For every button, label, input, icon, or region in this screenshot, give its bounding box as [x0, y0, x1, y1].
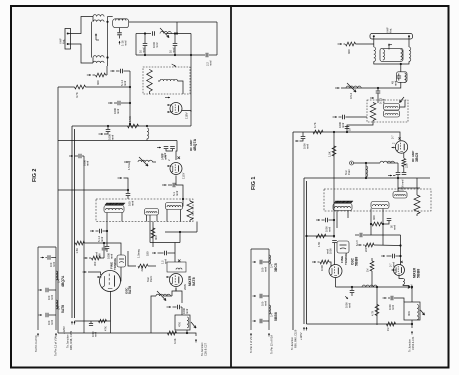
wire to IF output: [186, 330, 188, 333]
heater chart right rails: [250, 249, 252, 330]
bottom row right: [307, 323, 413, 325]
mixer grid row: [150, 242, 180, 244]
fine tuning right: [337, 241, 349, 253]
osc trimmer tall zigzag right: [414, 195, 420, 214]
svg-text:100K: 100K: [320, 265, 324, 271]
capacitor C21 45 mmf: [397, 76, 402, 78]
capacitor C25 with arrow: [302, 132, 304, 136]
svg-text:mmf: mmf: [392, 225, 396, 230]
heater chart rail right: [55, 247, 57, 330]
svg-text:4.7K: 4.7K: [313, 122, 317, 128]
wire antenna to balun: [68, 17, 93, 34]
rail resistor 1.5K: [332, 146, 336, 156]
IF out row y287: [336, 286, 413, 288]
svg-text:mmf: mmf: [50, 295, 54, 300]
tuner enclosure right panel: [292, 132, 294, 330]
svg-text:mmf: mmf: [116, 109, 120, 114]
antenna gang coil L6 with core: [105, 203, 125, 205]
wire L1 to top feedback line: [129, 21, 217, 23]
B+ rail arrows: [71, 321, 73, 325]
svg-text:TUNING: TUNING: [344, 253, 348, 265]
wire balun top to L1: [108, 16, 113, 18]
svg-text:30K: 30K: [407, 311, 411, 316]
cascode tube V1b: [170, 163, 182, 175]
svg-text:+125V: +125V: [299, 332, 303, 340]
svg-text:To Junction: To Junction: [200, 342, 204, 356]
heater cap Ch1: [48, 255, 50, 260]
wire mixer plate down: [172, 288, 176, 297]
capacitor C18 1000mmf bottom: [90, 321, 92, 323]
svg-text:C26 & C27: C26 & C27: [204, 342, 208, 356]
resistor R27 4.7K: [375, 305, 379, 316]
svg-text:300: 300: [154, 235, 158, 240]
capacitor C2 1000 mmf: [153, 31, 155, 36]
capacitor C11 100 mmf: [127, 190, 129, 193]
capacitor C3 10 mmf: [144, 34, 146, 44]
heater cap Ch3: [46, 313, 48, 318]
heater chart top: [38, 246, 56, 248]
wire mixer output: [176, 288, 182, 304]
arrow left of V1b: [118, 177, 123, 179]
svg-text:mmf: mmf: [208, 60, 212, 66]
bottom supply row left: [75, 320, 111, 322]
panel divider: [230, 6, 232, 368]
wire strip down to balun: [373, 36, 375, 47]
resistor R10 47K: [99, 319, 107, 322]
heater chart bottom arrows: [37, 333, 39, 337]
plate supply row y132: [293, 131, 387, 133]
osc tube V2a 5AT8 triode: [100, 271, 121, 292]
svg-text:mmf: mmf: [326, 249, 330, 254]
coil L21 in shield box: [397, 72, 408, 83]
svg-text:mmf: mmf: [305, 144, 309, 149]
fine tuning assembly: [117, 255, 126, 267]
resistor R20 with arrow: [338, 43, 343, 45]
wire V1a plate to B line: [182, 111, 191, 127]
rail arrows right: [303, 327, 305, 331]
mixer tube V22b: [394, 265, 405, 276]
capacitor C31 5-1.2 with arrow top: [110, 70, 114, 72]
bottom wire row: [58, 332, 187, 334]
resistor R8 on bottom: [168, 331, 177, 335]
resistor R11 4.7K on left wall row: [75, 85, 86, 89]
svg-text:C154 & L51: C154 & L51: [411, 336, 415, 350]
coil L26 box: [393, 192, 407, 199]
box connections: [377, 100, 379, 103]
mixer grid line down: [400, 235, 402, 265]
resistor R24 300: [372, 222, 382, 226]
svg-text:R99, R48, C159: R99, R48, C159: [69, 330, 73, 350]
wire osc top row: [165, 231, 197, 233]
svg-text:3,4: 3,4: [270, 264, 274, 268]
AGC row right y178: [304, 177, 430, 179]
arrow into V2a grid: [83, 271, 87, 273]
resistor R26 1M: [370, 261, 374, 271]
svg-text:mmf: mmf: [52, 262, 56, 267]
svg-text:mmf: mmf: [123, 40, 127, 46]
svg-text:mmf: mmf: [185, 309, 189, 314]
wire L21 to RF row: [341, 82, 401, 88]
resistor R23 220: [403, 153, 405, 158]
balun T2 right coil: [409, 47, 411, 61]
svg-text:mmf: mmf: [155, 42, 159, 48]
mixer tube V2b 5AT8: [170, 274, 183, 287]
resistor R25 with arrow: [358, 244, 362, 246]
svg-text:To Pin 12 of V1A: To Pin 12 of V1A: [270, 335, 274, 354]
capacitor C23 with arrow: [333, 116, 338, 118]
V2a arrows: [97, 276, 102, 278]
svg-text:mmf: mmf: [393, 81, 397, 86]
capacitor C16 with arrow: [167, 306, 172, 308]
gang dashed box right: [324, 189, 431, 211]
coil L1 with shield box: [113, 19, 129, 28]
coil L3 in shield: [160, 79, 178, 81]
cascode RF amp tube V1a: [170, 103, 182, 115]
osc section wires: [371, 224, 401, 235]
svg-text:5AT8: 5AT8: [192, 277, 196, 286]
wire osc cathode down: [109, 292, 112, 334]
osc tube V22a: [329, 265, 342, 278]
capacitor C7 top left: [118, 101, 120, 106]
svg-text:4.7K: 4.7K: [75, 92, 79, 98]
balun T1 bottom coils: [93, 56, 104, 58]
V1a pin arrows: [167, 104, 172, 106]
svg-text:mmf: mmf: [347, 303, 351, 308]
wire plate line down: [190, 34, 192, 113]
tuner enclosure left wall: [57, 87, 59, 333]
balun transformer T1 top coils: [93, 15, 104, 17]
coil L25 choke down: [365, 162, 367, 164]
capacitor C10 5-1 mmf with arrow: [162, 184, 167, 186]
balun T2 center box with coils: [380, 48, 403, 61]
wire balun bottom junction: [107, 63, 109, 66]
svg-text:1.5K: 1.5K: [75, 248, 79, 254]
svg-text:4BQ7A: 4BQ7A: [61, 275, 65, 287]
balun phase arrow: [95, 35, 97, 41]
svg-text:1.5meg: 1.5meg: [137, 249, 141, 258]
svg-text:mmf: mmf: [391, 305, 395, 310]
svg-text:1.5K: 1.5K: [317, 241, 321, 247]
svg-text:5AT8: 5AT8: [61, 305, 65, 313]
interstage dashed shield box: [143, 67, 190, 94]
resistor R21 tall in box: [370, 103, 376, 121]
svg-text:To Pin 12 of V14: To Pin 12 of V14: [54, 336, 58, 356]
B+ rail double line: [71, 126, 73, 318]
heater cap right 2: [260, 294, 262, 299]
wire from cathode row down: [135, 34, 137, 56]
heater cap right 1: [260, 260, 262, 265]
wire osc cathode to row: [335, 278, 337, 288]
V22b arrows: [392, 269, 397, 271]
svg-text:R99, R48, C159: R99, R48, C159: [294, 329, 298, 348]
resistor R9 1.5K plate: [76, 241, 85, 245]
wire cathode row: [136, 54, 205, 56]
mixer plate peaking coil: [399, 276, 403, 279]
svg-text:5BB8: 5BB8: [355, 257, 359, 266]
svg-text:mmf: mmf: [327, 227, 331, 232]
balun bottom wires: [374, 61, 409, 64]
svg-text:300: 300: [96, 80, 100, 85]
capacitor C24 on drop: [345, 127, 350, 129]
RF interstage dashed box right: [367, 100, 408, 122]
balun T2 left coil: [374, 47, 376, 61]
svg-text:mmf: mmf: [171, 47, 175, 53]
wire shield connections: [149, 92, 151, 95]
svg-text:mmf: mmf: [50, 320, 54, 325]
capacitor C6 on screen row: [107, 126, 109, 129]
plate coil L24: [354, 162, 381, 164]
capacitor C17: [102, 248, 107, 250]
svg-text:To Junction: To Junction: [290, 337, 294, 350]
vertical x130 joining rows: [129, 71, 131, 124]
grid coupling box: [167, 262, 186, 272]
svg-text:mmf: mmf: [110, 135, 114, 140]
svg-text:+125V: +125V: [62, 326, 66, 334]
svg-text:5BB8: 5BB8: [417, 269, 421, 278]
antenna gang coil L27 with core: [334, 201, 353, 203]
wire IF out bottom: [411, 320, 413, 328]
svg-text:mmf: mmf: [85, 161, 89, 166]
capacitor C12 5-1.2 with arrow: [90, 230, 94, 232]
svg-text:FIG 2: FIG 2: [32, 169, 38, 182]
gang wires down: [106, 213, 108, 245]
svg-text:47K: 47K: [178, 322, 182, 327]
svg-text:mmf: mmf: [123, 81, 127, 86]
capacitor C32 with arrow y220: [316, 219, 320, 221]
V2b pin arrows: [166, 276, 171, 278]
svg-text:Ant.: Ant.: [388, 28, 392, 33]
svg-text:Point: Point: [347, 169, 351, 175]
capacitor C28 1000mmf rail: [332, 241, 337, 243]
heater cap Ch2: [46, 288, 48, 293]
wire box bottom to grid line: [347, 121, 373, 133]
wire AGC row y190: [58, 189, 128, 191]
variable coil L2: [160, 32, 171, 34]
svg-text:mmf: mmf: [341, 123, 345, 128]
wire fine tuning to plate: [120, 267, 121, 281]
osc plate feed row y236: [307, 235, 335, 237]
osc feedback coil L9: [156, 294, 170, 296]
svg-text:To Pin 3 of V3: To Pin 3 of V3: [34, 335, 38, 352]
feedback line right drop: [216, 22, 218, 55]
svg-text:To Junction: To Junction: [66, 334, 70, 348]
osc grid vertical line: [83, 156, 85, 333]
svg-text:4BQ7A: 4BQ7A: [193, 139, 197, 151]
test point right: [350, 161, 354, 165]
oscillator trimmer R4 tall zigzag: [187, 201, 193, 220]
resistor R7 220K: [138, 264, 148, 268]
capacitor C5 2.2 mmf: [206, 53, 208, 58]
svg-text:Point: Point: [149, 276, 153, 282]
svg-text:5BB8: 5BB8: [274, 312, 278, 321]
svg-text:mmf: mmf: [175, 191, 179, 196]
RF gang coil L28: [371, 202, 389, 209]
svg-text:220K: 220K: [140, 265, 144, 271]
B+ rails right panel: [303, 178, 305, 324]
osc transformer box: [175, 315, 190, 330]
svg-text:220: 220: [405, 163, 409, 168]
cathode caps pair: [397, 163, 399, 172]
resistor R12 300 with arrow: [87, 74, 91, 76]
svg-text:mmf: mmf: [141, 47, 145, 53]
svg-text:1M: 1M: [366, 268, 370, 272]
svg-text:5AT8: 5AT8: [128, 286, 132, 294]
svg-text:4.7K: 4.7K: [371, 310, 375, 316]
capacitor C4 10 mmf: [174, 34, 176, 44]
svg-text:mmf: mmf: [381, 99, 385, 104]
capacitor C1 1-16 mmf: [119, 28, 121, 33]
wire C2 left: [136, 33, 151, 35]
svg-text:FIG 1: FIG 1: [251, 177, 257, 190]
resistor R13 300 with arrow: [84, 257, 88, 259]
svg-text:mmf: mmf: [163, 155, 167, 160]
VHF antenna terminal strip right: [370, 34, 413, 40]
capacitor C27 5-1.5: [360, 233, 362, 238]
IF output row: [398, 178, 420, 188]
mixer coupling cap 2-7: [381, 255, 385, 257]
heater chart bottom arrows right: [250, 333, 252, 337]
svg-text:11SY: 11SY: [182, 172, 186, 179]
svg-text:300: 300: [93, 261, 97, 266]
V1b arrows: [167, 165, 172, 167]
svg-text:mmf: mmf: [100, 237, 104, 242]
svg-text:3BC5: 3BC5: [415, 153, 419, 162]
resistor R5 300: [151, 228, 155, 238]
wire drop to RF grid row: [176, 22, 178, 34]
wire balun junction down to R12: [106, 66, 108, 75]
svg-text:3BC5: 3BC5: [274, 263, 278, 272]
arrow into cascode cathode: [165, 97, 170, 99]
capacitor C29 1000mmf: [351, 287, 353, 290]
capacitor C8 100 mmf: [69, 155, 73, 157]
resistor R28 1M: [387, 322, 396, 326]
coil L23 double in box: [384, 104, 400, 111]
svg-text:TUNING: TUNING: [113, 258, 117, 270]
peaking coil L29: [362, 285, 377, 287]
svg-text:mmf: mmf: [263, 267, 267, 272]
svg-text:To Junction: To Junction: [408, 339, 412, 352]
resistor R2 1.5K: [128, 124, 139, 128]
svg-text:200V: 200V: [183, 284, 187, 290]
balun phase arrow right: [388, 45, 390, 50]
svg-text:220: 220: [364, 247, 368, 252]
svg-text:47K: 47K: [104, 326, 108, 331]
IF transformer box: [404, 302, 420, 320]
svg-text:300: 300: [372, 215, 376, 220]
V21 arrows: [392, 147, 397, 149]
svg-text:mmf: mmf: [130, 201, 134, 206]
balun center frame: [91, 22, 93, 58]
osc gang coil L8: [166, 203, 183, 210]
heater chart rail left: [37, 247, 39, 330]
gang wires down right: [336, 211, 338, 229]
capacitor C30 with arrow: [383, 297, 387, 299]
svg-text:0.5-3: 0.5-3: [349, 92, 353, 99]
mixer grid cap C14 with arrow: [152, 252, 156, 254]
svg-text:11BV: 11BV: [185, 112, 189, 119]
variable coil L22: [346, 86, 361, 88]
capacitor C26 56 mmf: [383, 221, 389, 224]
svg-text:1.5K: 1.5K: [328, 151, 332, 157]
grid caps row: [176, 141, 178, 147]
capacitor C13 1000 mmf: [106, 244, 108, 246]
svg-text:2-7: 2-7: [391, 135, 395, 139]
VHF antenna terminal strip TS1: [65, 29, 71, 50]
svg-text:3.3K: 3.3K: [173, 338, 177, 344]
tuner enclosure top wall: [58, 140, 177, 142]
capacitor C22 5-1.5: [377, 87, 379, 89]
wire L2 to junction: [166, 33, 191, 35]
wire to RF tube grid: [387, 132, 400, 141]
coil L4 choke: [147, 128, 149, 139]
tuning gang dashed box: [96, 199, 193, 222]
wire to V1b grid: [176, 147, 177, 161]
svg-text:300: 300: [347, 49, 351, 54]
wire V1b cathode down: [175, 176, 177, 186]
svg-text:180: 180: [146, 251, 150, 256]
RF gang coil L7: [145, 209, 159, 216]
RF amp tube V21 3BC5: [395, 141, 407, 153]
svg-text:1M: 1M: [386, 327, 390, 331]
svg-text:To Pin 3 of V3: To Pin 3 of V3: [249, 337, 253, 353]
variable osc coil L5: [138, 160, 152, 162]
svg-text:mmf: mmf: [263, 301, 267, 306]
svg-text:mmf: mmf: [94, 332, 98, 337]
resistor R29 100K grid with arrow: [312, 261, 316, 263]
resistor R22 4.7K: [313, 130, 323, 134]
wire screen row y126: [72, 125, 191, 127]
svg-text:Ant.: Ant.: [61, 39, 65, 44]
resistor R1 tall in shield: [147, 70, 153, 92]
heater cap right 3: [260, 319, 262, 324]
